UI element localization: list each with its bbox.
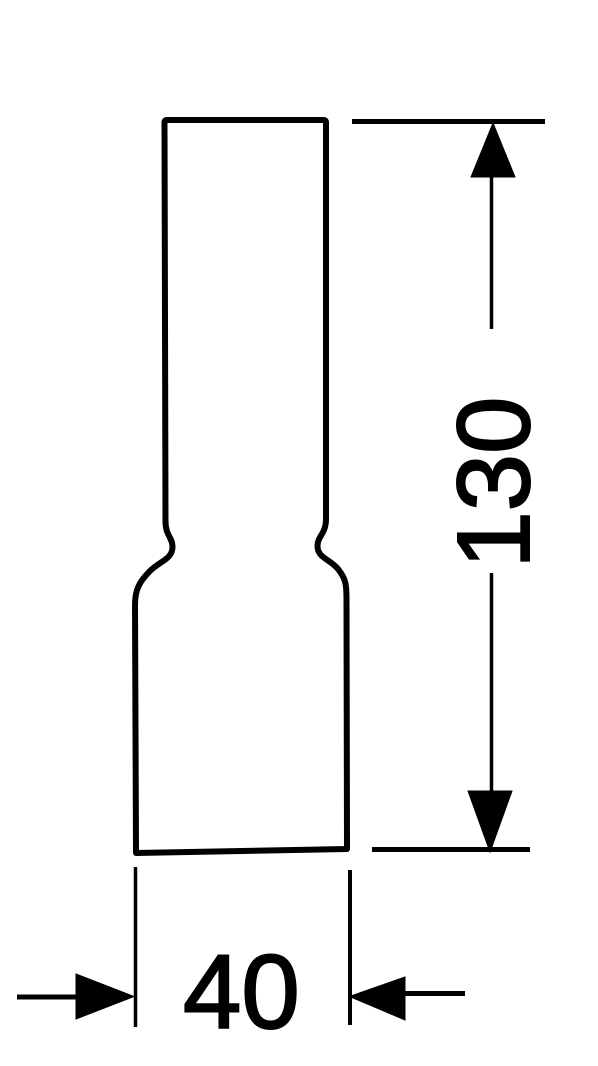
vertical dimension lower shaft xyxy=(490,573,494,845)
right extension line xyxy=(348,870,352,1025)
left extension line xyxy=(134,867,138,1027)
vertical dimension arrow down xyxy=(468,791,512,852)
vertical dimension arrow up xyxy=(471,123,515,177)
right arrow head xyxy=(350,977,406,1020)
svg-text:130: 130 xyxy=(436,397,551,569)
right arrow tail xyxy=(403,991,465,996)
left arrow tail xyxy=(17,995,76,1000)
bottom right extension line xyxy=(372,847,530,852)
vertical dimension upper shaft xyxy=(490,170,494,329)
lamp chimney outline xyxy=(135,120,347,853)
left arrow head xyxy=(76,974,134,1019)
top extension line xyxy=(352,119,545,124)
svg-text:40: 40 xyxy=(183,934,300,1051)
